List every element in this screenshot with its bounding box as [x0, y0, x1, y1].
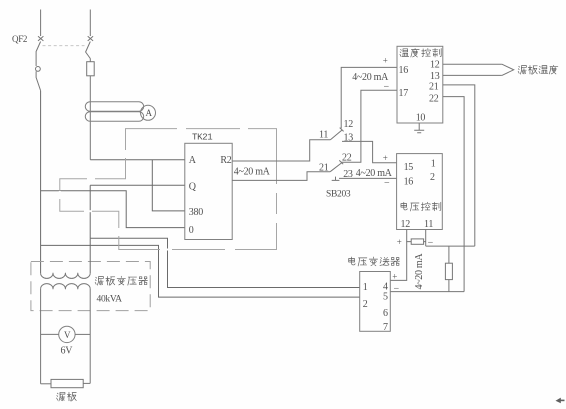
wire left rail to transmitter pin 2 [41, 245, 360, 297]
box temperature controller [397, 46, 443, 123]
svg-text:R2: R2 [220, 155, 231, 166]
wire voltmeter row left [41, 333, 59, 335]
wire TK21 lower output to contact 21 [232, 172, 330, 181]
svg-text:17: 17 [399, 88, 409, 99]
wire transmitter minus line [390, 291, 464, 293]
wire pin 21 down right side [443, 85, 475, 246]
breaker QF2 pole 1 lower blade [36, 71, 41, 90]
breaker QF2 pole 2 incoming wire [89, 10, 91, 37]
svg-text:23: 23 [343, 169, 353, 180]
wire fuse to CT [89, 76, 91, 160]
svg-text:+: + [392, 272, 397, 282]
breaker QF2 pole 1 blade [36, 42, 41, 53]
contact circle pole 1 [36, 67, 41, 72]
wire left rail to TK21 pin 0 [41, 191, 185, 228]
pushbutton actuator symbol [332, 177, 340, 181]
left rail wire [40, 91, 42, 274]
wire TK21 R2 output to contact 11 [232, 140, 330, 161]
corner mark [556, 398, 561, 404]
wire pin 12 node down to transmitter plus [390, 242, 406, 281]
terminal 23 wire to volt controller pin 16 [339, 177, 397, 179]
svg-text:Q: Q [189, 182, 197, 193]
box voltage transmitter [360, 272, 391, 332]
breaker QF2 pole 2 cross mark [88, 36, 93, 41]
svg-text:40kVA: 40kVA [97, 294, 123, 304]
dashed enclosure around TK21 [60, 129, 277, 250]
svg-text:12: 12 [401, 219, 411, 230]
transformer primary winding [41, 273, 91, 278]
title 漏板变压器 [95, 277, 103, 286]
breaker linkage dashed [43, 45, 85, 47]
svg-text:5: 5 [383, 291, 388, 302]
voltmeter V [59, 326, 75, 342]
svg-text:1: 1 [363, 282, 368, 293]
wire to bushing resistor left [41, 383, 51, 385]
svg-text:21: 21 [319, 163, 329, 174]
ground pin 10 [414, 123, 424, 133]
transformer secondary winding [41, 284, 91, 289]
svg-text:2: 2 [430, 172, 435, 183]
label 漏板温度 [518, 66, 526, 75]
wire pin 11 node to pin 21 riser [426, 245, 475, 247]
cable wedge arrow [502, 64, 514, 75]
wire Q node down [89, 185, 91, 238]
terminal 13 wire to volt controller pin 15 [342, 141, 397, 162]
svg-text:12: 12 [430, 59, 440, 70]
wire primary right lead [89, 238, 91, 273]
terminal 22 wire to temp controller pin 17 [341, 90, 397, 162]
svg-text:380: 380 [189, 207, 203, 218]
svg-text:13: 13 [430, 71, 440, 82]
wire TK21 pin Q [90, 184, 185, 186]
wire secondary right lead down [89, 289, 91, 384]
svg-text:2: 2 [363, 299, 368, 310]
svg-text:12: 12 [344, 119, 354, 130]
svg-text:6V: 6V [61, 346, 74, 357]
switch SB203 contact 21-22 blade [330, 160, 343, 171]
wire CT to TK21 pin A [90, 159, 185, 161]
svg-text:−: − [428, 237, 434, 248]
box TK21 [185, 143, 232, 239]
wire to transmitter pin 1 [90, 238, 360, 287]
terminal 12 wire from temp controller pin 16 [341, 67, 397, 128]
svg-text:7: 7 [383, 322, 388, 333]
resistor load vertical [448, 246, 450, 263]
svg-text:11: 11 [319, 130, 328, 141]
breaker QF2 pole 1 cross mark [38, 36, 43, 41]
wire pin 12 stub down [407, 230, 412, 242]
title 电压变送器 [349, 257, 355, 265]
svg-text:QF2: QF2 [12, 34, 27, 44]
wire resistor to pin 11 stub [424, 230, 426, 247]
svg-text:+: + [383, 56, 388, 66]
enclosure dash gaps [59, 128, 278, 251]
svg-text:A: A [189, 155, 197, 166]
svg-text:13: 13 [344, 132, 354, 143]
switch SB203 contact 11-12 blade [330, 128, 343, 140]
svg-text:−: − [394, 283, 400, 294]
svg-text:−: − [384, 82, 390, 93]
label 漏板 [57, 392, 65, 401]
svg-text:TK21: TK21 [192, 133, 212, 143]
svg-text:22: 22 [342, 152, 352, 163]
svg-text:0: 0 [189, 225, 194, 236]
svg-text:4~20 mA: 4~20 mA [414, 253, 425, 290]
title 电压控制 [401, 202, 407, 210]
svg-text:1: 1 [431, 158, 436, 169]
resistor output loop [411, 239, 423, 244]
svg-text:15: 15 [404, 162, 414, 173]
svg-text:V: V [64, 330, 71, 340]
title 温度控制 [400, 49, 409, 57]
breaker QF2 pole 2 blade [86, 42, 91, 59]
fuse FU [89, 59, 91, 62]
resistor bushing 漏板 [51, 379, 83, 387]
ammeter A [141, 105, 156, 120]
wire voltmeter row right [75, 333, 90, 335]
svg-text:A: A [146, 108, 153, 118]
wire secondary left lead down [40, 289, 42, 384]
svg-text:−: − [384, 178, 390, 189]
wire junction to TK21 pin 380 [152, 160, 185, 211]
wire pin 13 to arrow [443, 74, 502, 76]
current transformer winding 2 [85, 112, 143, 122]
wire pole1 below blade [35, 52, 37, 66]
svg-text:16: 16 [399, 65, 409, 76]
svg-text:21: 21 [429, 82, 439, 93]
svg-text:22: 22 [429, 94, 439, 105]
svg-text:SB203: SB203 [326, 189, 351, 199]
svg-text:6: 6 [383, 308, 388, 319]
svg-text:10: 10 [416, 112, 426, 123]
wire bushing right [83, 382, 90, 384]
dashed box transformer enclosure [31, 262, 150, 311]
svg-text:+: + [397, 237, 402, 247]
box voltage controller [397, 154, 443, 230]
svg-text:4~20 mA: 4~20 mA [234, 167, 271, 178]
wire pin 22 down right side [443, 97, 464, 292]
wire pin 12 to arrow [443, 63, 502, 65]
svg-text:+: + [383, 153, 388, 163]
breaker QF2 pole 1 incoming wire [40, 10, 42, 37]
svg-text:16: 16 [404, 176, 414, 187]
current transformer winding 1 [85, 102, 143, 112]
svg-text:11: 11 [424, 219, 433, 230]
